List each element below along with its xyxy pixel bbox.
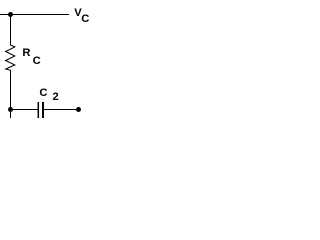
resistor R_C bbox=[6, 45, 15, 70]
node junction bottom bbox=[8, 107, 13, 112]
wire left vertical upper bbox=[10, 15, 12, 46]
node output terminal bbox=[76, 107, 81, 112]
node junction top (Vc tap) bbox=[8, 12, 13, 17]
svg-text:C: C bbox=[33, 55, 41, 67]
capacitor C2 left plate bbox=[37, 102, 39, 118]
wire top rail bbox=[0, 14, 69, 16]
wire left vertical lower bbox=[10, 70, 12, 118]
svg-text:C: C bbox=[39, 87, 47, 99]
svg-text:C: C bbox=[81, 13, 89, 25]
wire bottom left segment bbox=[11, 109, 39, 111]
wire bottom right segment bbox=[44, 109, 79, 111]
svg-text:2: 2 bbox=[53, 91, 59, 103]
capacitor C2 right plate bbox=[42, 102, 44, 118]
svg-text:R: R bbox=[22, 47, 30, 59]
